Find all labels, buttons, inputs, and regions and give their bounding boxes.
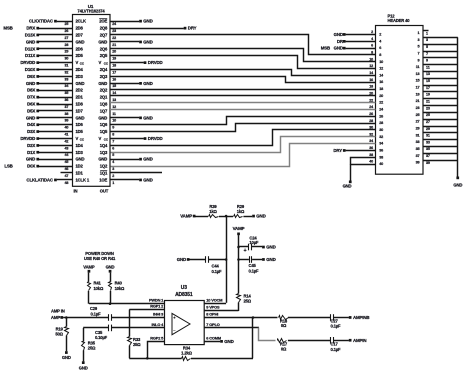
svg-text:GND: GND [143,39,152,44]
svg-text:42: 42 [64,139,68,143]
svg-text:D7X: D7X [27,95,35,100]
svg-text:2D5: 2D5 [76,53,84,58]
svg-text:0.1µF: 0.1µF [331,323,342,328]
svg-text:D1X: D1X [27,150,35,155]
svg-text:33: 33 [416,140,420,144]
svg-text:39: 39 [64,119,68,123]
svg-text:0Ω: 0Ω [281,347,287,352]
svg-text:DRX: DRX [26,26,35,31]
svg-text:DRVDD: DRVDD [148,60,163,65]
svg-text:46: 46 [64,167,68,171]
svg-text:AMPINB: AMPINB [353,315,369,320]
svg-text:12: 12 [369,64,373,68]
svg-text:VAMP: VAMP [233,226,245,231]
svg-text:28: 28 [64,43,68,47]
svg-text:GND: GND [143,177,152,182]
svg-text:DRVDD: DRVDD [20,60,35,65]
svg-text:GND: GND [26,115,35,120]
svg-text:3: 3 [426,38,428,42]
svg-text:POWER DOWN: POWER DOWN [85,251,114,256]
svg-text:1Q4: 1Q4 [100,143,108,148]
svg-text:50Ω: 50Ω [55,332,63,337]
svg-text:2Q8: 2Q8 [100,26,108,31]
svg-text:1OE: 1OE [99,177,107,182]
svg-text:2D1: 2D1 [76,95,84,100]
svg-text:15: 15 [112,84,116,88]
svg-text:11: 11 [416,65,420,69]
svg-text:21: 21 [426,100,430,104]
svg-text:27: 27 [64,36,68,40]
svg-text:1kΩ: 1kΩ [209,209,217,214]
svg-text:D3X: D3X [27,129,35,134]
svg-text:2Q4: 2Q4 [100,67,108,72]
svg-text:36: 36 [64,98,68,102]
svg-text:8: 8 [379,53,381,57]
svg-text:7: 7 [418,52,420,56]
svg-text:35: 35 [416,147,420,151]
svg-text:15: 15 [426,79,430,83]
svg-text:9: 9 [112,126,114,130]
svg-text:25: 25 [64,22,68,26]
svg-text:7: 7 [112,139,114,143]
svg-text:1Q7: 1Q7 [100,108,108,113]
svg-text:GND: GND [143,157,152,162]
svg-text:C29: C29 [90,306,98,311]
svg-text:GND: GND [334,46,343,51]
svg-text:5: 5 [426,45,428,49]
svg-text:HEADER 40: HEADER 40 [388,18,411,23]
svg-text:33: 33 [64,77,68,81]
svg-text:0.1µF: 0.1µF [91,312,102,317]
svg-text:IN: IN [74,189,78,194]
svg-text:37: 37 [64,105,68,109]
svg-text:0Ω: 0Ω [281,323,287,328]
svg-text:36: 36 [379,148,383,152]
svg-text:10 VOCM: 10 VOCM [206,298,222,303]
svg-text:23: 23 [416,106,420,110]
svg-text:2: 2 [112,174,114,178]
svg-text:40: 40 [379,162,383,166]
svg-text:21: 21 [112,43,116,47]
svg-text:40: 40 [369,160,373,164]
svg-text:25Ω: 25Ω [244,299,252,304]
svg-text:17: 17 [112,70,116,74]
svg-text:21: 21 [416,99,420,103]
svg-text:D5X: D5X [27,108,35,113]
svg-text:GND: GND [334,32,343,37]
svg-text:26: 26 [369,112,373,116]
svg-text:9: 9 [426,59,428,63]
svg-text:1D3: 1D3 [76,150,84,155]
svg-text:1D8: 1D8 [76,102,84,107]
svg-text:V: V [76,60,79,65]
svg-text:16: 16 [112,77,116,81]
svg-text:1: 1 [418,31,420,35]
svg-text:GND: GND [143,115,152,120]
svg-text:13: 13 [416,72,420,76]
svg-text:5: 5 [112,153,114,157]
svg-text:DRVDD: DRVDD [20,136,35,141]
svg-text:41: 41 [64,133,68,137]
svg-text:DRY: DRY [333,148,342,153]
svg-text:48: 48 [64,181,68,185]
svg-text:2D8: 2D8 [76,26,84,31]
svg-text:25Ω: 25Ω [88,346,96,351]
svg-text:USE R40 OR R41: USE R40 OR R41 [84,256,116,261]
svg-text:1D5: 1D5 [76,129,84,134]
svg-text:LSB: LSB [4,164,12,169]
svg-text:29: 29 [64,50,68,54]
svg-text:D6X: D6X [27,102,35,107]
svg-text:2D2: 2D2 [76,88,84,93]
svg-text:2: 2 [379,33,381,37]
svg-text:19: 19 [416,92,420,96]
svg-text:29: 29 [426,127,430,131]
svg-text:37: 37 [416,154,420,158]
svg-text:V: V [76,136,79,141]
svg-text:7 OPLO: 7 OPLO [206,322,219,327]
svg-text:1kΩ: 1kΩ [237,209,245,214]
svg-text:2Q1: 2Q1 [100,95,108,100]
svg-text:38: 38 [64,112,68,116]
svg-text:1D1: 1D1 [76,171,84,176]
svg-text:8 OPHI: 8 OPHI [206,311,218,316]
svg-text:30: 30 [379,128,383,132]
svg-text:0.1µF: 0.1µF [212,269,223,274]
svg-text:U3: U3 [181,285,187,291]
svg-text:38: 38 [379,155,383,159]
svg-text:37: 37 [426,154,430,158]
svg-text:35: 35 [426,147,430,151]
svg-text:3: 3 [112,167,114,171]
svg-text:PWDN 1: PWDN 1 [149,298,164,303]
svg-text:1Q3: 1Q3 [100,150,108,155]
svg-text:25: 25 [416,113,420,117]
svg-text:AMP IN: AMP IN [51,309,65,314]
svg-text:R41: R41 [94,281,102,286]
svg-text:18: 18 [379,87,383,91]
svg-text:2D3: 2D3 [76,74,84,79]
svg-text:INHI 3: INHI 3 [153,311,164,316]
svg-text:39: 39 [426,161,430,165]
svg-text:26: 26 [64,29,68,33]
svg-text:0.10µF: 0.10µF [95,335,108,340]
svg-text:10kΩ: 10kΩ [115,286,125,291]
svg-text:45: 45 [64,160,68,164]
svg-text:2Q6: 2Q6 [100,46,108,51]
svg-text:22: 22 [369,98,373,102]
svg-text:13: 13 [112,98,116,102]
svg-text:10: 10 [112,119,116,123]
svg-text:2D7: 2D7 [76,33,84,38]
svg-text:R40: R40 [115,281,123,286]
svg-text:CLKXTIDAC: CLKXTIDAC [29,19,54,24]
svg-text:10µF: 10µF [249,240,259,245]
svg-text:D8X: D8X [27,88,35,93]
svg-text:2Q5: 2Q5 [100,53,108,58]
svg-text:6: 6 [112,146,114,150]
svg-text:1Q5: 1Q5 [100,129,108,134]
svg-text:OUT: OUT [100,189,109,194]
svg-text:1D4: 1D4 [76,143,84,148]
svg-text:+: + [244,248,247,254]
svg-text:VAMP: VAMP [83,264,95,269]
svg-text:DRVDD: DRVDD [148,136,163,141]
svg-text:D0X: D0X [27,164,35,169]
svg-text:16: 16 [369,78,373,82]
svg-text:5: 5 [418,45,420,49]
svg-text:GND: GND [266,257,275,262]
svg-text:DR: DR [337,39,344,44]
svg-text:16: 16 [379,80,383,84]
svg-text:19: 19 [426,93,430,97]
svg-text:GND: GND [453,182,462,187]
svg-text:11: 11 [426,65,430,69]
svg-text:GND: GND [143,19,152,24]
svg-text:20: 20 [112,50,116,54]
svg-text:31: 31 [64,64,68,68]
svg-text:31: 31 [426,134,430,138]
svg-text:19: 19 [112,57,116,61]
svg-text:GND: GND [343,184,352,189]
svg-text:GND: GND [76,157,85,162]
svg-text:V: V [99,136,102,141]
svg-text:29: 29 [416,127,420,131]
svg-text:39: 39 [416,161,420,165]
svg-text:RGP2 5: RGP2 5 [150,335,164,340]
svg-text:AD8351: AD8351 [175,292,193,298]
svg-text:12: 12 [379,67,383,71]
svg-text:GND: GND [98,39,107,44]
svg-text:2: 2 [371,30,373,34]
svg-text:MSB: MSB [321,46,330,51]
svg-text:GND: GND [98,115,107,120]
svg-text:6 COMM: 6 COMM [206,335,221,340]
svg-text:INLO 4: INLO 4 [152,322,165,327]
svg-text:GND: GND [266,245,275,250]
svg-text:22: 22 [379,101,383,105]
svg-text:23: 23 [426,106,430,110]
svg-text:6: 6 [371,44,373,48]
svg-text:1: 1 [426,31,428,35]
svg-text:C45: C45 [249,263,257,268]
svg-text:2CLK: 2CLK [76,19,86,24]
svg-text:V: V [99,60,102,65]
svg-text:10: 10 [379,60,383,64]
svg-text:43: 43 [64,146,68,150]
svg-text:D11X: D11X [25,53,35,58]
svg-text:7: 7 [426,52,428,56]
svg-text:1Q1: 1Q1 [100,171,108,176]
svg-text:0.1µF: 0.1µF [331,347,342,352]
svg-text:1D6: 1D6 [76,122,84,127]
svg-text:36: 36 [369,146,373,150]
svg-text:40: 40 [64,126,68,130]
svg-text:31: 31 [416,133,420,137]
svg-text:GND: GND [26,39,35,44]
svg-text:GND: GND [62,355,71,360]
svg-text:1: 1 [112,181,114,185]
svg-text:8: 8 [112,133,114,137]
svg-text:VAMP: VAMP [180,214,192,219]
svg-text:25: 25 [426,113,430,117]
svg-text:2Q7: 2Q7 [100,33,108,38]
svg-text:2D6: 2D6 [76,46,84,51]
svg-text:30: 30 [64,57,68,61]
svg-text:AMP: AMP [51,315,61,320]
svg-text:10kΩ: 10kΩ [94,286,104,291]
svg-text:28: 28 [379,121,383,125]
svg-text:1D2: 1D2 [76,164,84,169]
svg-text:27: 27 [416,120,420,124]
svg-text:12: 12 [112,105,116,109]
svg-text:47: 47 [64,174,68,178]
svg-text:GND: GND [26,157,35,162]
svg-text:3: 3 [418,38,420,42]
svg-text:11: 11 [112,112,116,116]
svg-text:2OE: 2OE [99,19,107,24]
svg-text:D10X: D10X [25,67,36,72]
svg-text:GND: GND [26,81,35,86]
svg-text:23: 23 [112,29,116,33]
svg-text:22: 22 [112,36,116,40]
svg-text:35: 35 [64,91,68,95]
svg-text:25Ω: 25Ω [133,342,141,347]
svg-text:1D7: 1D7 [76,108,84,113]
svg-text:20: 20 [379,94,383,98]
svg-text:6: 6 [379,46,381,50]
svg-text:D2X: D2X [27,143,35,148]
svg-text:GND: GND [98,81,107,86]
svg-text:1Q8: 1Q8 [100,102,108,107]
svg-text:74LVTH162374: 74LVTH162374 [77,9,105,14]
svg-text:18: 18 [112,64,116,68]
svg-text:AMPIN: AMPIN [353,338,366,343]
svg-text:2D4: 2D4 [76,67,84,72]
svg-text:C44: C44 [212,263,220,268]
svg-text:0.1µF: 0.1µF [249,269,260,274]
svg-text:17: 17 [416,86,420,90]
svg-text:32: 32 [64,70,68,74]
svg-text:R35: R35 [88,340,96,345]
svg-text:D9X: D9X [27,74,35,79]
svg-text:1Q2: 1Q2 [100,164,108,169]
svg-text:DRY: DRY [188,26,197,31]
svg-text:1Q6: 1Q6 [100,122,108,127]
svg-text:33: 33 [426,140,430,144]
svg-text:D12X: D12X [25,46,36,51]
svg-text:GND: GND [76,115,85,120]
svg-text:1CLK 1: 1CLK 1 [76,177,90,182]
svg-text:17: 17 [426,86,430,90]
svg-text:MSB: MSB [3,26,12,31]
svg-text:GND: GND [224,339,233,344]
svg-text:18: 18 [369,85,373,89]
svg-text:13: 13 [426,72,430,76]
svg-text:R14: R14 [244,293,252,298]
svg-text:D4X: D4X [27,122,35,127]
svg-text:GND: GND [76,39,85,44]
svg-text:27: 27 [426,120,430,124]
svg-text:32: 32 [379,135,383,139]
svg-text:15: 15 [416,79,420,83]
svg-text:GND: GND [177,257,186,262]
svg-text:38: 38 [369,153,373,157]
svg-text:GND: GND [79,366,88,371]
svg-text:GND: GND [143,81,152,86]
svg-text:1.2kΩ: 1.2kΩ [181,350,192,355]
svg-text:CLKLATIDAC: CLKLATIDAC [26,177,53,182]
svg-text:GND: GND [98,157,107,162]
svg-text:9 VPOS: 9 VPOS [206,305,220,310]
svg-text:GND: GND [106,264,115,269]
svg-text:28: 28 [369,119,373,123]
svg-text:2Q3: 2Q3 [100,74,108,79]
svg-text:2Q2: 2Q2 [100,88,108,93]
svg-text:26: 26 [379,114,383,118]
svg-text:GND: GND [256,214,265,219]
svg-text:9: 9 [418,58,420,62]
svg-text:GND: GND [76,81,85,86]
svg-text:D13X: D13X [25,33,36,38]
